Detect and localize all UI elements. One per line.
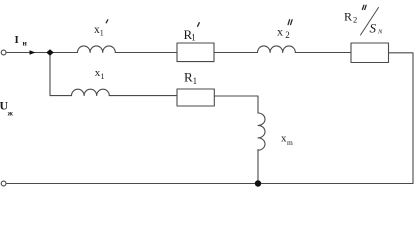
svg-text:x: x: [277, 24, 283, 38]
svg-text:R: R: [344, 10, 352, 24]
svg-text:2: 2: [285, 30, 290, 40]
svg-text:S: S: [370, 20, 377, 35]
svg-text:N: N: [377, 28, 383, 35]
svg-text:1: 1: [100, 29, 104, 38]
svg-text:ж: ж: [8, 109, 14, 118]
svg-text:m: m: [287, 138, 293, 147]
svg-text:1: 1: [193, 76, 198, 86]
svg-text:2: 2: [353, 15, 357, 25]
svg-text:I: I: [15, 34, 19, 46]
svg-text:1: 1: [191, 33, 196, 43]
svg-text:н: н: [23, 39, 28, 48]
svg-text:1: 1: [101, 72, 105, 81]
